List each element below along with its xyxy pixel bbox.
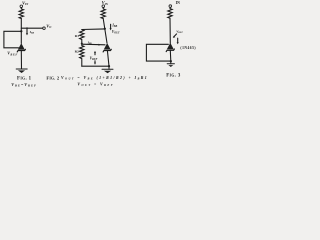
node VIN (Fig.1) label	[22, 0, 29, 6]
node label VOUT (Fig.2)	[112, 30, 120, 35]
diode D1 (Fig.2)	[103, 43, 111, 52]
node label VREF (Fig.3)	[176, 30, 183, 35]
caption Fig.3	[166, 74, 181, 79]
current arrow (Fig.3)	[177, 38, 179, 44]
node VIN (Fig.2) label	[102, 0, 109, 6]
equation VBE=VREF (Fig.1)	[11, 82, 37, 88]
svg-text:VIN: VIN	[22, 0, 29, 6]
wire	[169, 7, 171, 8]
annotation arrow to node (Fig.3)	[173, 34, 177, 38]
svg-text:VREF: VREF	[7, 51, 18, 57]
caption Fig.1	[17, 76, 32, 81]
current label IO (Fig.2)	[111, 23, 117, 28]
wire	[103, 19, 105, 29]
ground (Fig.1)	[16, 69, 27, 73]
node D junction bottom (Fig.2)	[108, 65, 110, 67]
resistor R1 (Fig.2)	[80, 30, 84, 43]
svg-text:VOUT = VBE (1+R1/R2) + IBR1: VOUT = VBE (1+R1/R2) + IBR1	[61, 76, 148, 81]
node IN (Fig.3) label	[176, 1, 180, 5]
label R1	[75, 34, 79, 38]
resistor R2 (Fig.2)	[80, 44, 84, 66]
wire	[102, 7, 104, 8]
resistor RS (Fig.3)	[168, 9, 172, 19]
wire	[169, 50, 172, 61]
svg-text:FIG. 2: FIG. 2	[46, 75, 59, 80]
svg-text:VREF: VREF	[90, 57, 98, 62]
current label IB (Fig.2)	[87, 40, 93, 45]
node C junction R1-R2 (Fig.2)	[81, 42, 83, 44]
wire	[107, 51, 109, 67]
terminal VO (Fig.1)	[43, 27, 46, 30]
svg-text:VOUT: VOUT	[112, 30, 120, 35]
svg-text:VO: VO	[46, 23, 51, 29]
resistor R (Fig.2)	[101, 9, 105, 19]
node E junction (Fig.3)	[170, 60, 172, 62]
svg-text:IN: IN	[176, 1, 180, 5]
svg-text:IBB: IBB	[29, 30, 35, 35]
svg-text:R1: R1	[75, 34, 79, 38]
wire collector (Fig.2)	[105, 29, 107, 43]
node A junction (Fig.1)	[20, 30, 22, 32]
terminal VIN (Fig.2)	[102, 5, 105, 8]
part label (Fig.3)	[180, 46, 196, 50]
wire	[20, 19, 22, 44]
wire loop base-cathode (Fig.3)	[146, 44, 170, 61]
value label VREF (Fig.2)	[90, 57, 98, 62]
node VO label	[46, 23, 51, 29]
svg-text:(1N465): (1N465)	[180, 46, 196, 50]
current label IB (Fig.1)	[29, 30, 35, 35]
svg-text:IBB: IBB	[111, 23, 117, 28]
svg-text:VOUT = VREF: VOUT = VREF	[77, 83, 114, 88]
caption Fig.2	[46, 75, 59, 80]
equation line1 (Fig.2)	[61, 76, 148, 81]
wire base with arrow (Fig.2)	[82, 44, 105, 46]
ground (Fig.3)	[167, 61, 174, 67]
wire top to R1	[82, 28, 105, 31]
svg-text:R2: R2	[75, 50, 79, 54]
wire loop base-collector (Fig.1)	[4, 31, 21, 48]
ground (Fig.2)	[102, 66, 113, 73]
label R2	[75, 50, 79, 54]
diode D1 (Fig.3)	[166, 43, 174, 52]
svg-text:VBE=VREF: VBE=VREF	[11, 82, 37, 88]
resistor R (Fig.1)	[19, 9, 23, 19]
equation line2 (Fig.2)	[77, 83, 114, 88]
terminal VIN (Fig.1)	[20, 5, 23, 8]
wire	[169, 18, 171, 43]
current arrow IO (Fig.2)	[110, 24, 112, 30]
current arrow I (Fig.1)	[26, 28, 28, 36]
wire bottom (Fig.2)	[82, 65, 109, 67]
node B junction (Fig.2)	[104, 28, 106, 30]
wire	[20, 8, 22, 9]
wire	[20, 51, 22, 69]
annotation arrow down VREF (Fig.2)	[94, 61, 96, 65]
diode D1 (Fig.1)	[17, 43, 25, 52]
wire to output	[21, 27, 42, 29]
terminal IN (Fig.3)	[169, 5, 172, 8]
value label VREF (Fig.1)	[7, 51, 18, 57]
annotation arrow up VREF (Fig.2)	[94, 51, 96, 55]
